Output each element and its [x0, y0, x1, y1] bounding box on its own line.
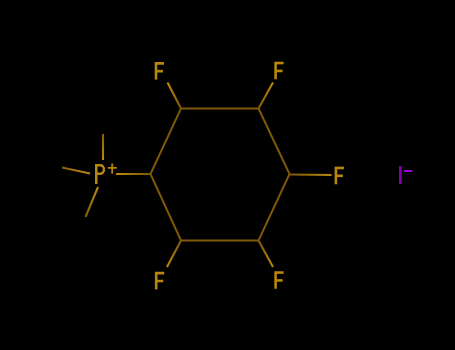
charge plus on P: [108, 164, 117, 174]
wire P-CH3 bond (up): [102, 134, 104, 160]
label F (top-right): [274, 62, 283, 80]
wire C4-F bond (right): [290, 173, 332, 176]
label F (bottom-right): [274, 271, 283, 289]
iodide I label: [399, 166, 402, 184]
wire C6-F bond (bottom-left): [167, 241, 181, 268]
wire P-CH3 bond (down-left): [86, 187, 99, 217]
label F (right): [335, 167, 344, 185]
label F (bottom-left): [155, 272, 164, 290]
label P (phosphonium): [95, 164, 105, 184]
wire C3-F bond (top-right): [259, 83, 274, 109]
charge minus on I: [404, 170, 413, 172]
wire C2-F bond (top-left): [168, 83, 182, 109]
benzene ring C1-C6: [151, 109, 290, 241]
wire C5-F bond (bottom-right): [259, 241, 274, 268]
wire P-CH3 bond (left): [62, 168, 90, 174]
wire C1-P bond (left, horizontal): [116, 173, 151, 175]
label F (top-left): [155, 62, 164, 80]
